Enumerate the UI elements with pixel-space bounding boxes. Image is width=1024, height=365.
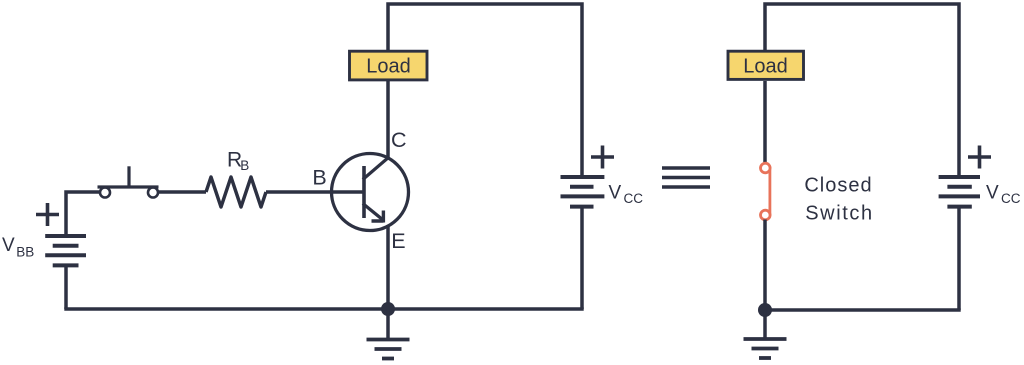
- ground (left circuit): [367, 309, 410, 359]
- wire: base lead: [266, 190, 364, 194]
- plus sign VCC left: [591, 146, 614, 169]
- svg-text:Closed: Closed: [804, 174, 872, 196]
- junction node right: [758, 303, 772, 317]
- svg-text:V: V: [609, 183, 622, 204]
- svg-text:V: V: [2, 235, 15, 256]
- equivalence symbol: [662, 168, 710, 187]
- closed switch S2: [761, 163, 771, 220]
- wire: switch to resistor: [158, 190, 206, 194]
- plus sign VBB: [36, 203, 59, 226]
- svg-text:C: C: [391, 128, 407, 152]
- svg-text:Load: Load: [743, 56, 788, 78]
- wire: emitter down to ground node: [386, 225, 390, 309]
- wire: bottom rail left: [64, 307, 583, 311]
- load box L1: [350, 51, 428, 80]
- resistor RB: [206, 177, 266, 207]
- wire: switch to bottom node: [763, 220, 767, 311]
- load box L2: [728, 51, 804, 79]
- svg-text:B: B: [240, 158, 249, 173]
- wire: Vbb to bottom rail: [64, 266, 68, 309]
- wire: Vbb to switch: [66, 192, 100, 236]
- wire: load to switch: [763, 81, 767, 164]
- svg-text:CC: CC: [1001, 191, 1021, 206]
- svg-text:CC: CC: [624, 191, 644, 206]
- wire: bottom rail right: [765, 308, 961, 312]
- junction node (emitter/ground): [381, 302, 395, 316]
- svg-text:BB: BB: [16, 244, 34, 259]
- wire: top loop (collector to Vcc): [388, 4, 582, 177]
- wire: top loop right circuit: [765, 4, 959, 177]
- svg-text:Switch: Switch: [805, 203, 874, 225]
- battery VBB: [45, 236, 86, 265]
- ground (right circuit): [744, 310, 787, 358]
- battery VCC (left circuit): [561, 177, 605, 207]
- wire: right Vcc to bottom rail: [957, 207, 961, 310]
- svg-text:Load: Load: [366, 56, 411, 78]
- pushbutton switch S1: [98, 166, 159, 197]
- wire: load bottom to collector: [386, 81, 390, 158]
- wire: Vcc down to bottom rail: [580, 207, 584, 309]
- svg-text:V: V: [986, 183, 999, 204]
- svg-text:B: B: [312, 166, 326, 190]
- plus sign VCC right: [968, 146, 991, 169]
- svg-text:E: E: [391, 229, 405, 253]
- battery VCC (right circuit): [939, 177, 980, 207]
- transistor Q1: [332, 154, 409, 231]
